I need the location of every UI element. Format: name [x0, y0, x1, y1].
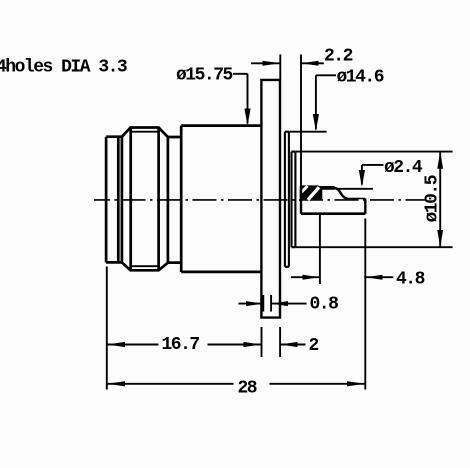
arrowheads	[107, 61, 443, 387]
svg-text:ø15.75: ø15.75	[176, 66, 233, 86]
arrow 0.8 right	[271, 301, 288, 306]
crimp slope to solder pot	[335, 188, 348, 199]
arrow 28 left	[107, 381, 125, 386]
dim line 16.7	[107, 344, 261, 346]
contact crimp shoulder plateau	[319, 186, 335, 190]
dimension and extension lines	[107, 55, 453, 390]
body cylinder o15.75	[181, 126, 261, 272]
solder pot top line o2.4	[336, 188, 373, 190]
arrow 0.8 left	[246, 301, 263, 306]
hatch white slash 2	[308, 187, 319, 200]
dim line o10.5 vertical	[439, 152, 441, 248]
section hatch block	[301, 186, 322, 199]
arrow 16.7 right / 2 left	[244, 342, 262, 347]
dim line 0.8	[239, 303, 307, 305]
ext lines flange (2)	[262, 327, 281, 357]
ext line o10.5 top	[296, 151, 453, 153]
ext bars 0.8	[263, 295, 271, 312]
leader o14.6	[316, 75, 336, 129]
arrow 4.8 right	[365, 275, 382, 280]
svg-text:4holes DIA 3.3: 4holes DIA 3.3	[0, 58, 127, 78]
knurl inner chamfer arcs	[131, 132, 159, 267]
ext line 2.2 right / contact face	[300, 55, 302, 187]
solder pot end face	[364, 199, 366, 214]
center line	[94, 199, 426, 201]
dim line 4.8	[291, 276, 393, 278]
coupling nut front rim	[106, 137, 122, 263]
knurl groove line	[121, 137, 124, 263]
svg-text:0.8: 0.8	[310, 295, 339, 315]
svg-text:ø14.6: ø14.6	[337, 68, 384, 88]
contact left face redraw	[300, 186, 302, 200]
svg-text:16.7: 16.7	[162, 335, 200, 355]
ext line o10.5 bottom	[296, 246, 453, 248]
arrow o15.75 down	[244, 109, 250, 126]
svg-text:28: 28	[238, 379, 257, 399]
arrow o10.5 down	[437, 230, 443, 247]
knurl chamfer edge lines	[131, 128, 159, 271]
crimp root vertical	[318, 186, 320, 199]
solder pot slot top	[345, 198, 366, 200]
ext line 2.2 left (flange rear face)	[279, 55, 281, 80]
hatch white slash 1	[301, 186, 307, 193]
ext line left (16.7 / 28)	[106, 267, 108, 390]
svg-text:4.8: 4.8	[396, 270, 425, 290]
svg-text:ø2.4: ø2.4	[384, 158, 423, 178]
svg-text:2.2: 2.2	[324, 47, 353, 67]
solder pot bottom edge	[301, 212, 365, 215]
arrow 4.8 left	[303, 275, 320, 280]
ext line tail end (4.8 / 28)	[364, 219, 366, 390]
mounting flange	[261, 80, 280, 318]
rear collar	[168, 137, 181, 263]
dim line 2 tail	[280, 344, 305, 346]
svg-text:ø10.5: ø10.5	[423, 175, 443, 222]
ext line o14.6 washer top	[289, 131, 326, 133]
knurl outline with chamfers	[122, 128, 168, 271]
leader o2.4	[362, 165, 384, 185]
contact section left face	[300, 186, 302, 214]
arrow o10.5 up	[437, 152, 443, 169]
ext line 4.8 left	[319, 215, 321, 285]
arrow o14.6 down	[313, 114, 319, 131]
contact hatch top edge	[301, 185, 319, 187]
arrow 2.2 right	[301, 61, 318, 66]
arrow 2.2 left	[263, 61, 281, 66]
leader o15.75	[233, 74, 248, 124]
arrow 16.7 left	[107, 342, 125, 347]
arrow 28 right	[347, 381, 365, 386]
dim line 2.2	[251, 62, 324, 64]
dim line 28	[107, 383, 365, 385]
arrow 2 right	[280, 342, 297, 347]
arrow o2.4 down	[359, 170, 365, 187]
svg-text:2: 2	[309, 336, 319, 356]
washer o14.6	[285, 132, 289, 267]
insulator bushing o10.5	[292, 152, 296, 248]
